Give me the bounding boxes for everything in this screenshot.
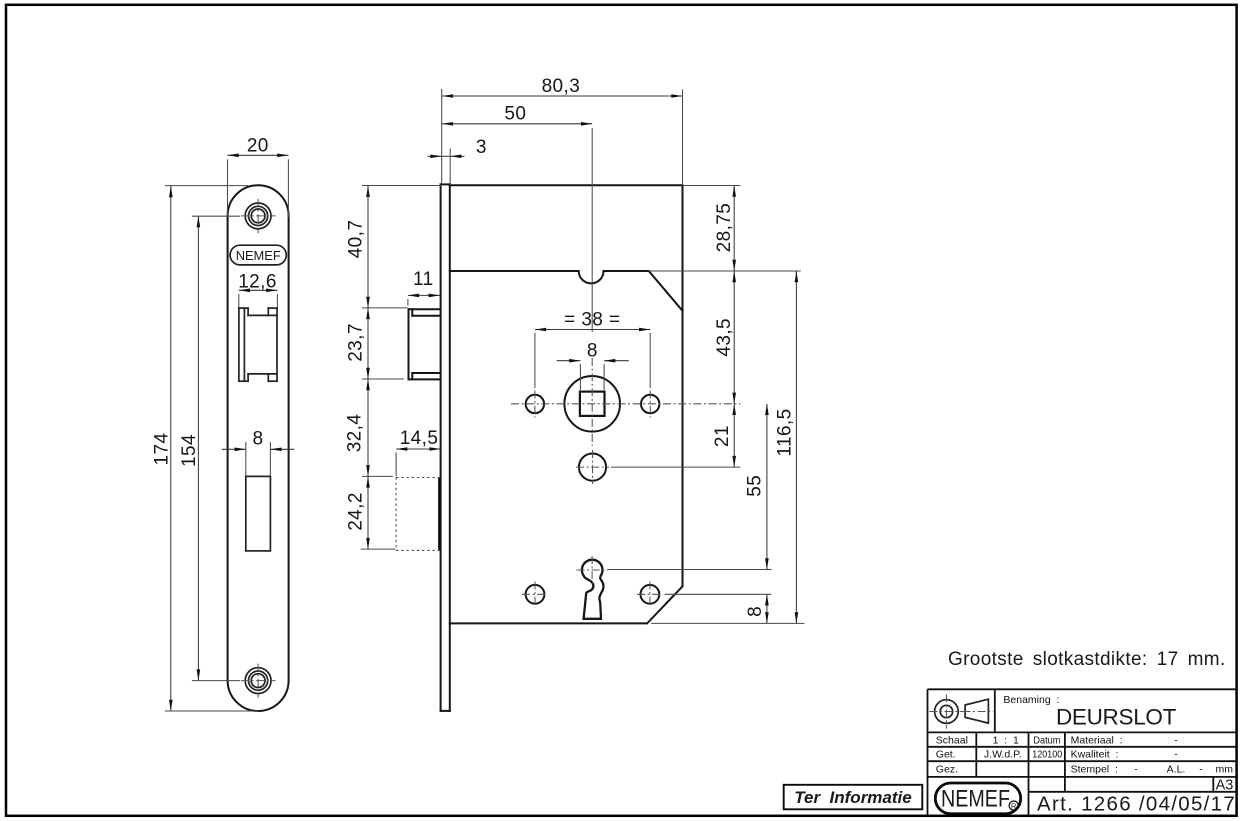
keyhole centerlines <box>591 556 593 586</box>
dim 32,4 <box>367 379 369 476</box>
svg-text:28,75: 28,75 <box>714 203 735 253</box>
svg-text:174: 174 <box>151 433 172 466</box>
svg-text:154: 154 <box>179 434 200 467</box>
svg-text:Grootste slotkastdikte: 17 mm.: Grootste slotkastdikte: 17 mm. <box>948 649 1226 670</box>
bottom hole centerlines <box>522 593 548 595</box>
svg-text:55: 55 <box>745 475 766 497</box>
bottom screw centerlines <box>257 664 259 698</box>
latch cutout on plate <box>239 308 277 381</box>
projection symbol cone <box>965 699 988 723</box>
svg-text:1 : 1: 1 : 1 <box>993 734 1019 746</box>
svg-text:8: 8 <box>587 341 598 362</box>
dim 21 <box>733 404 735 467</box>
svg-text:3: 3 <box>476 137 487 158</box>
follower square spindle hole <box>580 392 605 416</box>
dim 28,75 <box>733 186 735 272</box>
bottom screw hole <box>245 668 271 694</box>
right extension lines <box>683 185 741 187</box>
Ter Informatie box <box>784 785 923 810</box>
svg-text:Benaming :: Benaming : <box>1003 694 1059 706</box>
svg-text:NEMEF: NEMEF <box>941 786 1010 813</box>
dim 23,7 <box>367 308 369 379</box>
svg-text:Materiaal :: Materiaal : <box>1071 734 1123 746</box>
svg-text:116,5: 116,5 <box>775 408 796 456</box>
svg-text:Art. 1266 /04/05/17: Art. 1266 /04/05/17 <box>1037 793 1236 816</box>
faceplate strip edge-on <box>441 184 450 711</box>
svg-text:-: - <box>1134 763 1138 775</box>
dim 55 <box>766 404 768 570</box>
svg-text:43,5: 43,5 <box>714 318 735 357</box>
follower circle <box>564 376 620 432</box>
svg-text:Ter Informatie: Ter Informatie <box>794 788 911 807</box>
svg-text:21: 21 <box>712 425 733 447</box>
lock case outline <box>450 185 683 623</box>
svg-text:J.W.d.P.: J.W.d.P. <box>984 749 1022 761</box>
top screw hole <box>245 203 271 229</box>
svg-text:40,7: 40,7 <box>346 220 367 259</box>
hidden deadbolt dashed box <box>396 478 439 551</box>
dim 8 right <box>766 594 768 623</box>
faceplate outline <box>228 185 289 711</box>
svg-text:= 38 =: = 38 = <box>564 309 620 330</box>
left M5 hole <box>526 395 544 413</box>
horizontal centerline through follower <box>511 403 740 405</box>
right M5 hole <box>641 395 659 413</box>
dim 20 <box>228 154 289 156</box>
svg-text:Gez.: Gez. <box>936 763 958 775</box>
case step edge with notch <box>450 271 683 311</box>
projection symbol circle <box>935 700 959 724</box>
svg-text:Stempel :: Stempel : <box>1071 763 1118 775</box>
svg-text:Datum: Datum <box>1033 734 1060 746</box>
svg-text:11: 11 <box>413 269 434 290</box>
svg-text:DEURSLOT: DEURSLOT <box>1056 705 1177 730</box>
NEMEF logo title block <box>935 783 1020 814</box>
svg-text:A3: A3 <box>1216 778 1234 794</box>
NEMEF oval on plate <box>230 245 286 265</box>
deadbolt face dark segment on strip <box>438 478 441 551</box>
dim 116,5 <box>795 271 797 623</box>
svg-text:50: 50 <box>504 104 526 125</box>
dim 43,5 <box>733 271 735 404</box>
dim 12,6 <box>239 289 278 291</box>
left dim chain ticks/extensions <box>362 185 441 187</box>
svg-text:120100: 120100 <box>1032 749 1062 761</box>
svg-text:-: - <box>1174 749 1178 761</box>
svg-text:32,4: 32,4 <box>345 414 366 453</box>
dim 8 (plate) <box>222 448 246 450</box>
svg-text:24,2: 24,2 <box>346 492 367 531</box>
small hole centerlines <box>534 391 536 418</box>
dim 154 <box>197 216 199 681</box>
svg-text:mm: mm <box>1216 763 1234 775</box>
svg-text:A.L.: A.L. <box>1167 763 1186 775</box>
svg-text:23,7: 23,7 <box>346 323 367 362</box>
deadbolt cutout on plate <box>246 476 271 551</box>
top screw centerlines <box>257 199 259 233</box>
svg-text:Kwaliteit :: Kwaliteit : <box>1071 749 1119 761</box>
svg-text:14,5: 14,5 <box>400 428 439 449</box>
svg-text:80,3: 80,3 <box>542 76 581 97</box>
dim 24,2 <box>367 476 369 549</box>
latch bolt side view <box>409 309 441 379</box>
bottom right hole <box>641 585 660 604</box>
svg-text:12,6: 12,6 <box>238 271 277 292</box>
svg-text:Schaal: Schaal <box>936 734 968 746</box>
svg-text:8: 8 <box>745 606 766 617</box>
dim 174 <box>170 186 172 711</box>
hole below follower <box>579 454 606 481</box>
hole-3 centerlines <box>592 450 594 484</box>
bottom left hole <box>526 585 545 604</box>
svg-text:20: 20 <box>247 135 269 156</box>
svg-text:-: - <box>1174 734 1178 746</box>
centerline vertical 50/follower <box>591 128 593 332</box>
svg-text:8: 8 <box>253 428 264 449</box>
dim 40,7 <box>367 186 369 308</box>
svg-text:Get.: Get. <box>936 749 956 761</box>
svg-text:NEMEF: NEMEF <box>236 248 281 263</box>
keyhole <box>582 560 604 619</box>
svg-text:-: - <box>1199 763 1203 775</box>
svg-text:R: R <box>1011 801 1017 810</box>
